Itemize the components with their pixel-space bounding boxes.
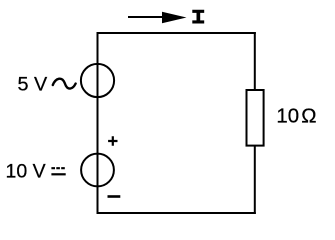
svg-text:Ω: Ω — [301, 106, 316, 128]
svg-text:10 V: 10 V — [6, 161, 46, 183]
AC source V1 circle — [81, 64, 114, 97]
DC source V2 circle — [81, 154, 114, 187]
DC symbol dashed line — [51, 167, 65, 169]
current label I — [192, 10, 204, 24]
current arrow line — [128, 16, 164, 18]
wire right top segment — [254, 32, 256, 91]
wire left — [97, 32, 99, 214]
svg-text:5 V: 5 V — [18, 74, 48, 96]
svg-text:10: 10 — [276, 106, 299, 128]
wire right bottom segment — [254, 144, 256, 214]
wire top — [97, 32, 256, 34]
plus sign of DC source — [108, 136, 117, 145]
AC tilde symbol — [53, 79, 76, 89]
resistor R1 10 ohm — [247, 90, 264, 146]
minus sign of DC source — [108, 195, 121, 198]
current arrow head — [162, 12, 187, 24]
wire bottom — [97, 212, 256, 214]
DC symbol solid line — [51, 173, 65, 175]
